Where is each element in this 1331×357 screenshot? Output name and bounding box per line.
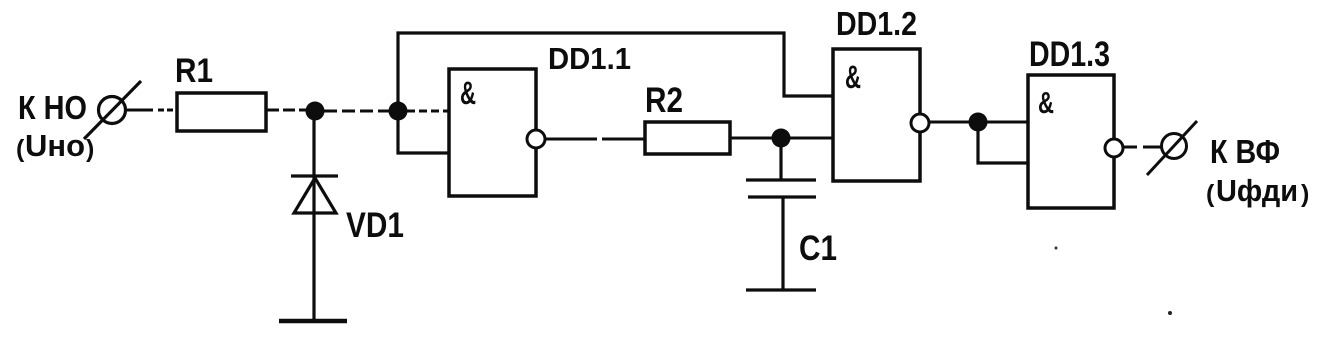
output bubble of DD1.1 <box>527 130 545 148</box>
svg-text:R1: R1 <box>175 52 213 90</box>
wire R2 to node C <box>730 137 781 140</box>
logic gate DD1.2 <box>833 49 920 181</box>
output connector X2 <box>1147 121 1197 175</box>
wire node B down to DD1.1 input 2 <box>398 111 449 153</box>
svg-text:R2: R2 <box>645 81 683 120</box>
diode VD1 <box>291 118 338 321</box>
svg-text:Uфди: Uфди <box>1216 174 1298 208</box>
svg-text:): ) <box>1301 180 1309 208</box>
wire node C to DD1.2 input 2 <box>790 137 833 140</box>
wire R1 to node A <box>267 109 314 112</box>
wire node A to node B <box>324 110 398 113</box>
ground bar of VD1 <box>279 319 347 324</box>
logic gate DD1.3 <box>1028 75 1114 208</box>
node B junction dot <box>389 102 408 121</box>
svg-text:&: & <box>1038 85 1054 120</box>
capacitor C1 <box>746 147 816 290</box>
svg-text:Uно: Uно <box>25 129 85 163</box>
svg-text:(: ( <box>1206 180 1215 208</box>
svg-text:&: & <box>460 75 476 111</box>
wire input to R1 <box>127 109 176 112</box>
svg-text:DD1.3: DD1.3 <box>1029 35 1110 74</box>
resistor R1 <box>177 93 266 131</box>
svg-text:(: ( <box>16 135 25 163</box>
output bubble of DD1.2 <box>911 114 929 132</box>
input connector X1 <box>84 81 141 139</box>
speck <box>1168 311 1172 315</box>
svg-text:&: & <box>845 59 861 95</box>
wire node B to DD1.1 input 1 <box>407 110 449 113</box>
svg-text:VD1: VD1 <box>346 206 404 245</box>
wire node D down to DD1.3 input 2 <box>978 122 1028 163</box>
feedback wire node B to DD1.2 input 1 <box>398 33 833 111</box>
speck <box>1055 247 1058 250</box>
wire DD1.2 output to node D <box>929 121 978 124</box>
svg-text:): ) <box>86 135 94 163</box>
wire DD1.3 output to connector <box>1123 146 1137 149</box>
bottom bar of C1 <box>746 288 816 291</box>
node D junction dot <box>969 113 988 132</box>
svg-text:DD1.2: DD1.2 <box>836 5 917 42</box>
node A junction dot <box>306 102 325 121</box>
svg-text:C1: C1 <box>799 229 837 268</box>
wire node D to DD1.3 input 1 <box>987 121 1028 124</box>
node C junction dot <box>772 129 791 148</box>
wire DD1.1 output to R2 <box>545 138 597 141</box>
svg-text:К НО: К НО <box>18 90 87 127</box>
logic gate DD1.1 <box>449 69 536 196</box>
svg-text:DD1.1: DD1.1 <box>548 41 631 76</box>
resistor R2 <box>645 122 730 154</box>
output bubble of DD1.3 <box>1105 139 1123 157</box>
svg-text:К ВФ: К ВФ <box>1210 134 1280 171</box>
